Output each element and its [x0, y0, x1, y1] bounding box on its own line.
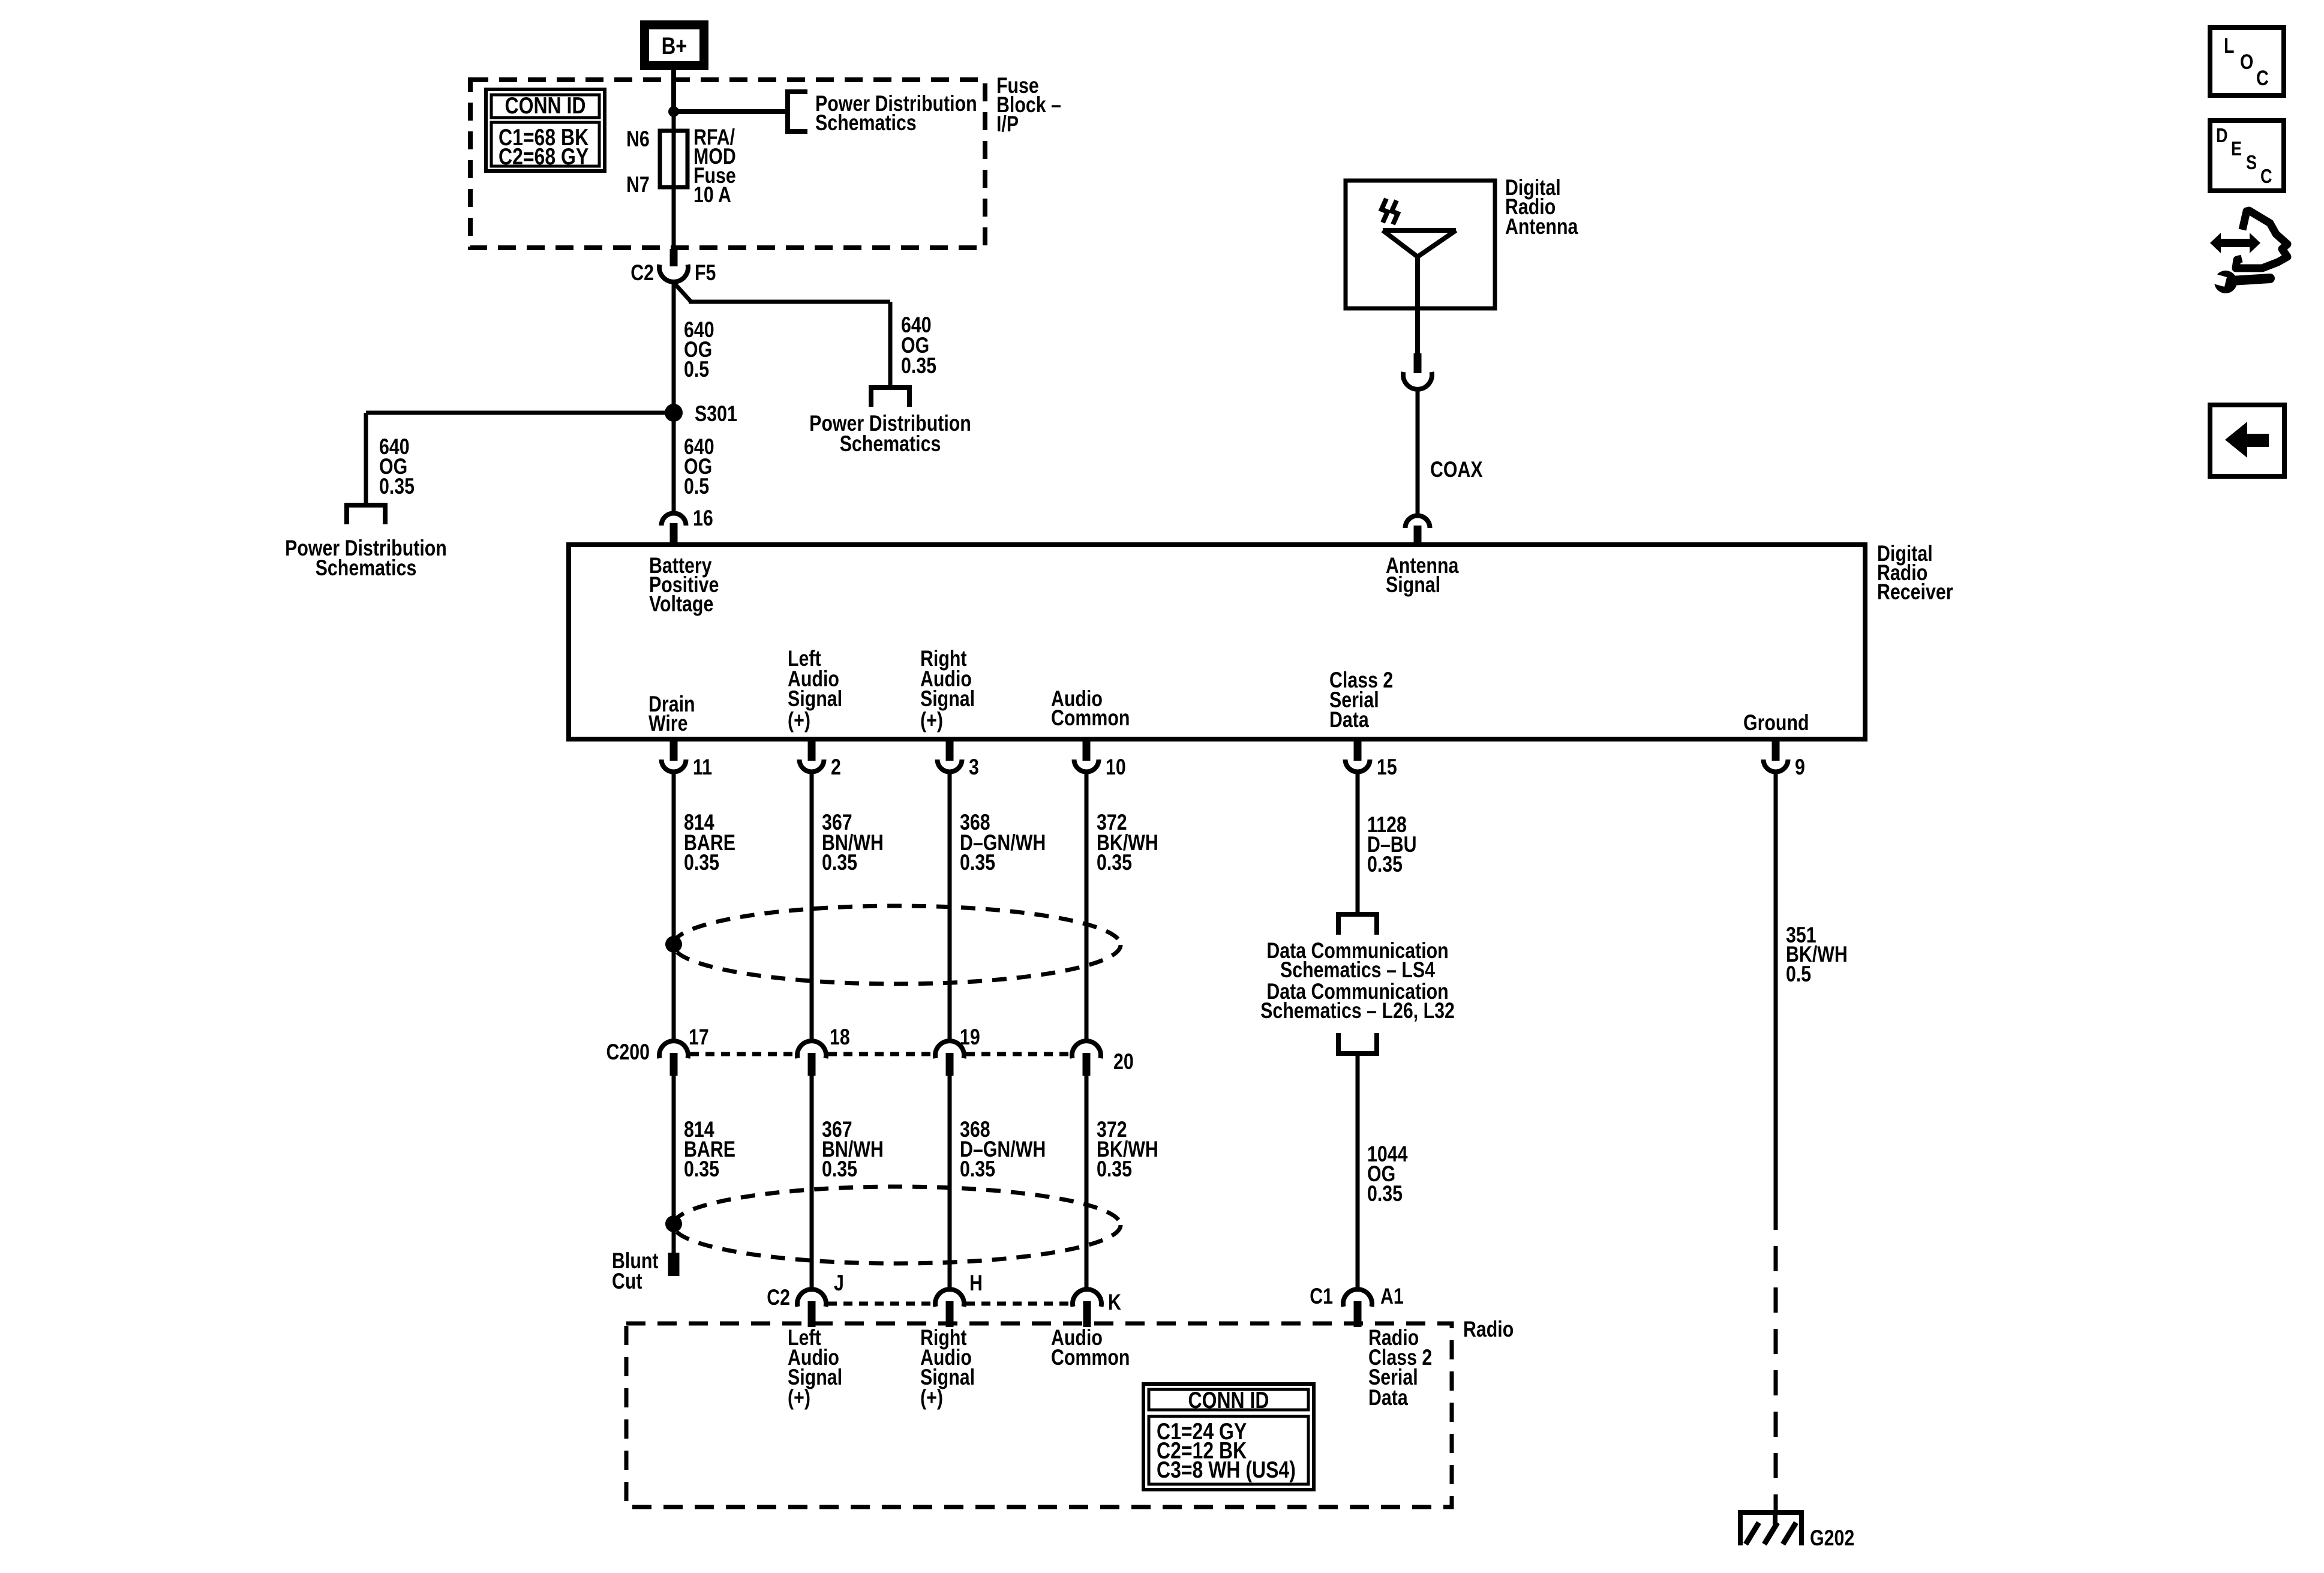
icon schematic curl — [2236, 211, 2287, 268]
wire left branch drop — [364, 413, 368, 505]
CONN ID table (radio) heading cell — [1149, 1389, 1308, 1410]
svg-text:H: H — [969, 1271, 983, 1296]
C200 dashed link 1 — [690, 1052, 795, 1056]
digital radio receiver box — [569, 545, 1865, 739]
connector radio cavity K male pin — [1083, 1301, 1091, 1327]
wire class 2 serial 1128 D-BU — [1356, 774, 1360, 914]
svg-text:17: 17 — [689, 1025, 709, 1050]
wire junction to off-page bracket — [674, 109, 788, 114]
svg-text:Data CommunicationSchematics –: Data CommunicationSchematics – LS4Data C… — [1260, 938, 1455, 1023]
antenna rf bolt 2 — [1392, 200, 1398, 224]
wire S301 to left branch — [366, 411, 674, 415]
wire ground 351 BK/WH dashed — [1774, 1205, 1778, 1510]
wire ground 351 BK/WH solid — [1774, 774, 1778, 1205]
connector pin 16 female cup — [662, 513, 686, 526]
wire branch to right bracket — [689, 300, 890, 304]
svg-text:Radio: Radio — [1463, 1317, 1514, 1342]
connector pin 3 male pin — [946, 739, 954, 761]
connector C200 cavity 19 female cup — [935, 1041, 964, 1058]
coax connector female cup (receiver side) — [1406, 515, 1430, 528]
wire drain 814 BARE (upper) — [672, 774, 676, 1041]
off-page bracket data communication (lower) — [1338, 1033, 1377, 1053]
connector radio cavity J female cup — [797, 1289, 826, 1307]
svg-text:C: C — [2256, 66, 2269, 89]
radio dashed box — [626, 1323, 1452, 1507]
connector C200 cavity 19 male pin — [946, 1053, 954, 1076]
off-page bracket power distribution (top) — [788, 92, 807, 131]
wire audio common 372 BK/WH (lower) — [1085, 1076, 1089, 1289]
antenna rf bolt 1 — [1382, 199, 1388, 223]
icon back arrow box — [2210, 405, 2284, 476]
svg-text:CONN ID: CONN ID — [1188, 1387, 1269, 1413]
connector C200 cavity 20 female cup — [1072, 1041, 1101, 1058]
wire left audio 367 BN/WH (upper) — [810, 774, 814, 1041]
wire left audio 367 BN/WH (lower) — [810, 1076, 814, 1289]
svg-text:N7: N7 — [626, 172, 650, 197]
svg-text:C2: C2 — [767, 1285, 790, 1310]
connector C200 cavity 17 male pin — [670, 1053, 678, 1076]
connector C200 cavity 17 female cup — [659, 1041, 688, 1058]
connector C2 F5 female cup — [659, 265, 688, 282]
svg-text:N6: N6 — [626, 127, 650, 152]
svg-text:16: 16 — [693, 506, 713, 531]
off-page bracket power distribution (right branch) — [871, 388, 909, 407]
svg-text:S: S — [2246, 152, 2257, 174]
coax connector female cup (antenna side) — [1403, 372, 1432, 389]
connector C2 F5 male pin — [670, 249, 678, 266]
svg-text:C1=68 BKC2=68 GY: C1=68 BKC2=68 GY — [499, 124, 588, 170]
splice drain to shield (lower) — [665, 1215, 682, 1232]
radio row dashed link 1 — [828, 1302, 933, 1306]
svg-text:20: 20 — [1113, 1049, 1134, 1074]
digital radio antenna box — [1346, 181, 1495, 308]
connector pin 2 male pin — [808, 739, 816, 761]
connector pin 9 male pin — [1772, 739, 1780, 761]
icon back arrow — [2225, 422, 2269, 458]
svg-text:B+: B+ — [662, 32, 687, 59]
svg-text:C2: C2 — [630, 260, 654, 286]
svg-text:COAX: COAX — [1430, 457, 1483, 482]
icon LOC box — [2210, 28, 2284, 95]
CONN ID table (radio) data cell — [1149, 1416, 1308, 1484]
connector radio cavity K female cup — [1073, 1289, 1101, 1307]
splice drain to shield (upper) — [665, 936, 682, 953]
C200 dashed link 3 — [966, 1052, 1070, 1056]
svg-text:BatteryPositiveVoltage: BatteryPositiveVoltage — [649, 553, 719, 617]
CONN ID table (radio) outer — [1143, 1384, 1314, 1490]
splice S301 — [665, 404, 683, 422]
node junction above fuse — [668, 106, 679, 117]
fuse F5 RFA/MOD body — [660, 131, 687, 187]
connector pin 2 female cup — [800, 760, 824, 772]
power symbol B+ box — [645, 25, 704, 66]
svg-text:C200: C200 — [606, 1040, 650, 1065]
wire diagonal C2-F5 branch — [674, 283, 691, 302]
shield ellipse (upper) — [673, 906, 1121, 984]
wire audio common 372 BK/WH (upper) — [1085, 774, 1089, 1041]
svg-text:10: 10 — [1106, 755, 1126, 780]
connector pin 9 female cup — [1764, 760, 1788, 772]
connector radio cavity A1 male pin — [1354, 1301, 1362, 1327]
svg-text:J: J — [834, 1271, 844, 1296]
connector pin 15 male pin — [1354, 739, 1362, 761]
svg-text:S301: S301 — [695, 401, 737, 427]
svg-text:2: 2 — [831, 755, 841, 780]
C200 dashed link 2 — [828, 1052, 933, 1056]
connector C200 cavity 18 male pin — [808, 1053, 816, 1076]
svg-text:K: K — [1108, 1290, 1121, 1315]
wire 1044 OG 0.35 — [1356, 1053, 1360, 1289]
svg-text:G202: G202 — [1810, 1526, 1854, 1551]
connector radio cavity H female cup — [935, 1289, 964, 1307]
svg-text:3: 3 — [969, 755, 979, 780]
coax connector male pin (antenna side) — [1414, 353, 1422, 373]
connector C200 cavity 18 female cup — [797, 1041, 826, 1058]
svg-text:9: 9 — [1795, 755, 1805, 780]
off-page bracket power distribution (left branch) — [347, 505, 385, 524]
svg-text:L: L — [2224, 34, 2235, 57]
antenna symbol — [1383, 228, 1456, 233]
icon double arrow — [2210, 233, 2260, 253]
svg-text:19: 19 — [960, 1025, 980, 1050]
fuse block dashed box Fuse Block - I/P — [470, 80, 985, 248]
connector pin 10 male pin — [1083, 739, 1091, 761]
svg-text:RFA/MODFuse10 A: RFA/MODFuse10 A — [693, 125, 736, 208]
wire COAX — [1416, 390, 1420, 514]
off-page bracket data communication (upper) — [1338, 914, 1377, 935]
icon wrench — [2214, 271, 2237, 293]
connector pin 15 female cup — [1346, 760, 1370, 772]
svg-text:Ground: Ground — [1743, 710, 1809, 736]
connector pin 10 female cup — [1074, 760, 1099, 772]
connector pin 11 male pin — [670, 739, 678, 761]
connector radio cavity H male pin — [946, 1301, 954, 1327]
wire B+ to junction — [671, 70, 676, 114]
coax connector male pin (receiver side) — [1414, 526, 1422, 545]
svg-text:E: E — [2231, 139, 2242, 160]
svg-text:15: 15 — [1377, 755, 1397, 780]
svg-text:O: O — [2240, 50, 2253, 73]
ground G202 symbol — [1738, 1510, 1804, 1515]
wire right audio 368 D-GN/WH (lower) — [948, 1076, 952, 1289]
wire drain 814 BARE (lower) — [672, 1076, 676, 1254]
shield ellipse (lower) — [673, 1187, 1121, 1263]
CONN ID table (fuse block) heading cell — [491, 95, 599, 118]
svg-text:CONN ID: CONN ID — [505, 92, 586, 119]
wire 640 OG 0.35 drop (right) — [888, 302, 893, 388]
CONN ID table (fuse block) data cell — [491, 122, 599, 166]
radio row dashed link 2 — [966, 1302, 1071, 1306]
svg-text:18: 18 — [830, 1025, 850, 1050]
svg-text:F5: F5 — [695, 260, 716, 286]
svg-text:A1: A1 — [1380, 1284, 1404, 1309]
svg-text:C: C — [2260, 166, 2272, 188]
CONN ID table (fuse block) outer — [486, 89, 605, 171]
connector pin 3 female cup — [938, 760, 962, 772]
connector pin 11 female cup — [662, 760, 686, 772]
wire right audio 368 D-GN/WH (upper) — [948, 774, 952, 1041]
icon DESC box — [2210, 121, 2284, 191]
connector radio cavity J male pin — [808, 1301, 816, 1327]
connector C200 cavity 20 male pin — [1083, 1053, 1091, 1076]
wire junction to fuse F5 — [672, 112, 676, 252]
wire C2-F5 to S301 to pin16 — [672, 283, 676, 511]
connector pin 16 male pin — [670, 523, 678, 545]
svg-text:D: D — [2216, 125, 2228, 147]
svg-text:C1: C1 — [1310, 1284, 1333, 1309]
blunt cut terminal — [668, 1253, 680, 1276]
connector radio cavity A1 female cup — [1343, 1289, 1372, 1307]
svg-text:11: 11 — [693, 755, 712, 780]
